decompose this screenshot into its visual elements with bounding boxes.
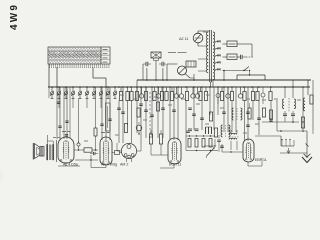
IF transformer T2 — [282, 99, 284, 109]
wire psu vertical right — [307, 80, 309, 87]
wire v1 — [136, 80, 138, 87]
wire spk top — [47, 135, 49, 141]
label uF — [53, 137, 56, 139]
wire switch feed left — [48, 64, 50, 87]
capacitor C33 — [100, 123, 103, 125]
tube ECH11 — [168, 138, 181, 164]
wire HT bus (y87) — [48, 86, 310, 88]
resistor R19 — [149, 134, 152, 144]
small circle comp — [216, 94, 220, 98]
svg-text:AM 2: AM 2 — [120, 163, 128, 167]
potentiometer arrow — [207, 148, 215, 156]
AVC resistors R24-R27 — [188, 139, 191, 148]
svg-text:4W9: 4W9 — [9, 3, 20, 30]
label above lamp — [168, 52, 176, 54]
capacitor C39 — [57, 101, 60, 103]
wire rectifier anode — [198, 30, 210, 32]
wire secondary to bus — [212, 80, 214, 87]
wire switch feed — [56, 67, 58, 87]
capacitor C34 — [108, 118, 111, 120]
wire v2 — [154, 58, 156, 64]
wire left col — [48, 87, 50, 98]
wire v right — [276, 100, 278, 131]
band switch S1 (wave switch block) — [48, 47, 110, 64]
magic eye tube AM2 — [121, 143, 136, 158]
tube EBF11 — [243, 139, 254, 162]
coil base box — [281, 145, 294, 147]
paper edge shading — [0, 170, 2, 182]
wire selector down — [223, 71, 225, 81]
mains switch S2 — [244, 67, 249, 71]
wire tap 110V — [223, 56, 228, 58]
electrolytic C38 — [261, 93, 265, 97]
bus junction dots — [56, 86, 58, 88]
wire right section — [262, 121, 299, 123]
wire heater rail (y80) — [137, 79, 311, 81]
svg-text:AZ 11: AZ 11 — [179, 37, 188, 41]
mains cord dashes — [246, 56, 254, 58]
junctions on heater rail — [146, 79, 148, 81]
trimmer capacitors row C1-C10 — [51, 86, 53, 88]
capacitor C31 — [58, 125, 61, 127]
wire lamp right — [190, 77, 194, 79]
wire het line — [75, 159, 98, 161]
wire mains segment (y75) — [237, 74, 265, 76]
tuning gang dashed link — [149, 92, 151, 140]
earth symbol small — [288, 148, 290, 153]
oscillator coil L1 — [229, 133, 237, 134]
comp right of AF7 — [115, 151, 120, 155]
wire heater drop1 — [142, 64, 144, 80]
pilot lamp LA1 — [178, 66, 187, 75]
resistor R23 — [262, 108, 265, 117]
output transformer T4 — [47, 145, 48, 160]
junctions right — [292, 121, 294, 123]
switch S1 contact row — [49, 64, 51, 67]
grid cap C36 — [93, 152, 95, 155]
transformer T1 secondary winding — [213, 32, 215, 80]
capacitor C30 — [217, 139, 221, 141]
resistors R14-R17 — [156, 102, 159, 111]
wire al4 top leads — [59, 135, 61, 139]
resistor R20 — [159, 134, 162, 144]
fuse box F1 — [227, 41, 237, 47]
capacitor C29 — [195, 128, 199, 130]
capacitor C35 — [77, 143, 80, 146]
pilot lamp housing (hatched box) — [151, 52, 161, 58]
wire switch feed2 — [92, 68, 94, 79]
resistor R28 — [124, 124, 127, 133]
coupling capacitors C14-C26 — [117, 107, 121, 109]
IF transformer T3 — [303, 98, 305, 111]
coil shield L4 — [106, 103, 111, 131]
output tube AL4 — [58, 137, 74, 163]
wire mid bottom h — [204, 145, 215, 147]
capacitor C12 heater — [145, 62, 147, 67]
svg-text:ECH 11: ECH 11 — [169, 163, 181, 167]
wire tap 220V — [223, 43, 228, 45]
wire AVC top — [186, 135, 214, 137]
osc transformer T5 — [232, 108, 234, 120]
padding trimmer C27 — [136, 125, 142, 131]
svg-text:EBF 11: EBF 11 — [255, 158, 267, 162]
tube AF7 — [100, 137, 112, 165]
wire fuse to mains — [237, 43, 252, 45]
value labels scatter — [120, 94, 124, 96]
svg-text:AF 7 Wdg: AF 7 Wdg — [101, 163, 117, 167]
chassis arrow — [302, 157, 312, 163]
wire eye drops — [116, 143, 118, 151]
voltage selector taps — [216, 41, 221, 42]
coil L2 — [221, 125, 222, 137]
wire EBF bottom — [247, 162, 249, 166]
resistor R29 — [137, 108, 140, 117]
wire v186 — [185, 130, 187, 151]
label uF4 — [62, 131, 66, 133]
resistor R30 — [94, 128, 97, 136]
wire vertical drops — [56, 87, 58, 139]
wire AF7 bottom — [105, 164, 107, 168]
resistor R21 — [301, 117, 304, 128]
fuse box F2 — [227, 54, 237, 60]
rectifier tube AZ11 — [193, 33, 203, 43]
transformer T1 core — [209, 30, 211, 82]
capacitor C37 — [188, 128, 192, 130]
wire AVC bottom — [186, 150, 218, 152]
wire selector common — [216, 70, 223, 72]
wire ECH bottom — [173, 164, 175, 168]
transformer T1 primary winding — [207, 32, 209, 73]
wire drop x95 — [95, 87, 97, 128]
wire R18 up — [95, 139, 97, 150]
junction selector — [223, 70, 225, 72]
capacitor C13 heater — [161, 62, 163, 67]
label above AF7 — [101, 132, 105, 134]
wire AL4 cathode — [65, 162, 67, 166]
capacitor C11 mains — [237, 56, 241, 58]
resistor R22 — [248, 108, 251, 119]
wire osc area — [222, 151, 243, 153]
wire drop x70 — [69, 87, 71, 138]
resistor R18 (AL4 grid) — [74, 149, 84, 151]
wire drop x78 — [78, 99, 80, 143]
capacitor C32 — [65, 120, 68, 122]
resistor row R1-R13 below HT bus — [119, 92, 122, 101]
transformer T1 taps — [198, 45, 207, 47]
wire lamp left — [167, 63, 178, 65]
wire c12 — [143, 63, 146, 65]
connector box — [186, 61, 196, 67]
loudspeaker LS1 — [35, 144, 41, 159]
coil L3 — [205, 127, 207, 134]
